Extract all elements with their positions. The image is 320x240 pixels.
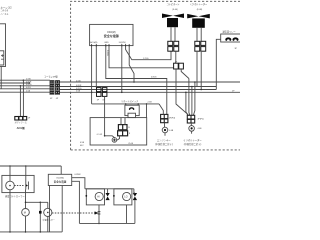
horn switch box SW1 [125,104,139,118]
U2 bottom wires [50,186,63,232]
horn H2 lead wires [197,28,201,47]
svg-text:ミリオルレーダー: ミリオルレーダー [183,138,202,142]
lower ground rail [0,231,62,233]
M06 connector row1 [118,125,127,130]
bus wire 2 (short) [0,82,30,84]
wire U1 pin7 to bus r1 [129,46,135,83]
U2 right wire2 to ground rail [72,181,80,223]
svg-text:(中国仕様ニ於テ): (中国仕様ニ於テ) [155,142,173,146]
svg-text:4P(PU): 4P(PU) [198,118,205,120]
bus row r2 right [60,86,217,88]
svg-text:1.25G: 1.25G [143,58,149,60]
cluster wire c2 [188,79,191,116]
M06 connector row2 [118,131,128,136]
svg-text:(F-08): (F-08) [197,9,203,11]
cluster wire c4 [193,81,195,115]
lower circuit: feeder rail [0,165,61,167]
indicator L2 lamp [189,123,195,134]
svg-text:2P: 2P [28,117,31,119]
connector S1 [174,63,184,69]
label 0.5W [97,134,102,136]
B2 caption [5,194,25,198]
svg-text:IG(24V): IG(24V) [119,42,126,44]
horn H2 label [190,2,208,11]
svg-text:M-2: M-2 [80,145,84,147]
M06 ground circle [112,138,117,143]
dashed link arrow [95,211,99,214]
B2 switch symbol [26,182,29,190]
wire drop to ACG connector (left) [20,85,22,116]
svg-text:0.5B: 0.5B [80,142,85,144]
horn HL2 bottom wire [126,205,128,224]
svg-text:0.85 B: 0.85 B [106,50,108,56]
svg-text:3P: 3P [235,48,238,50]
power unit box U2 [48,174,71,185]
svg-text:ス-06: ス-06 [128,141,134,145]
relay K1 contact glyphs [226,38,238,39]
svg-text:4P: 4P [50,98,53,100]
bus wire 1 [0,79,50,81]
svg-text:速度コントローラー: 速度コントローラー [5,194,25,198]
svg-text:ホーン 2/2: ホーン 2/2 [1,6,13,10]
wire from 1P connector down to M06 box [104,96,115,137]
svg-text:2.5B: 2.5B [76,91,81,93]
wires below B2 [10,190,26,232]
svg-text:HI: HI [97,196,100,199]
bus row r4 right [60,91,241,93]
connector 1P1P pair on bus [97,88,107,97]
gauge top rail [25,202,48,204]
relay K1 contact dots [225,39,238,41]
indicator L2 caption [183,138,202,146]
horn HL2 glyph [124,196,127,199]
wire drop to ACG connector (right) [23,79,25,116]
regulator box B1 (left, cut off) [0,24,6,67]
svg-text:0.85L: 0.85L [26,87,32,89]
svg-text:0.85R: 0.85R [26,81,32,83]
svg-text:0.85G: 0.85G [26,84,32,86]
svg-text:(F-06): (F-06) [172,9,178,11]
main connector pair right block [55,81,59,95]
horn switch feed wire [92,103,159,105]
indicator L2 connector [187,115,194,123]
speed controller box B2 [2,175,34,192]
indicator L2 lamp label [198,128,203,130]
indicator L1 caption [155,139,173,146]
horn H2 trumpet [187,14,210,28]
svg-text:ボディアース: ボディアース [15,121,27,125]
U2 title [54,178,67,184]
M06 internal wire [117,136,120,140]
bus wire 4 [0,88,50,90]
drop wires from feeder rail [10,166,61,182]
U2 right wire1 to horn loop [72,178,85,189]
wire U1 pin1 to horn switch line [91,46,93,104]
svg-text:ACG側: ACG側 [17,126,26,130]
horn H1 connector upper [168,41,179,45]
horn HL2 tone mark (bowtie) [133,193,137,200]
indicator L1 lamp [162,123,168,136]
cluster wire c1 [185,92,188,116]
svg-text:ハーネス: ハーネス [1,12,9,16]
U1 pin ticks [92,44,130,46]
svg-text:2.5B: 2.5B [148,102,153,104]
gauge G1 glyph [24,211,26,215]
faint page header text [1,6,13,17]
svg-text:0.85G: 0.85G [151,77,157,79]
svg-text:M: M [24,211,26,215]
label 0.85G on GND route [151,77,157,79]
bowtie1 stub [107,189,109,193]
svg-text:2.5W: 2.5W [26,79,31,81]
svg-text:B: B [128,127,130,129]
horn HL1 glyph [97,196,100,199]
svg-text:1P: 1P [97,100,100,102]
svg-text:4.0B: 4.0B [198,128,203,130]
M06 label [128,141,134,145]
power unit box U1 [90,24,133,45]
horn H1 connector lower [168,47,179,52]
dashed enclosure box [71,1,240,150]
wire 2.5B down to L1 [159,104,163,115]
relay note text [235,48,238,50]
svg-text:ACG(B): ACG(B) [90,41,97,44]
B2 dashed link [14,185,24,187]
bus row labels right of connector [76,80,235,92]
horn H2 connector lower [195,47,206,52]
svg-text:エンジンキー: エンジンキー [157,139,171,142]
svg-text:R: R [129,133,131,135]
wire relay to bus r3 [216,39,220,89]
svg-text:0.5W: 0.5W [76,80,81,82]
M06 row labels [128,127,131,135]
label S1 [175,61,178,63]
svg-text:0.85R: 0.85R [76,85,82,87]
relay K1 label [223,29,236,33]
svg-text:2.5B: 2.5B [26,91,31,93]
horn H1 trumpet [162,14,184,28]
indicator L2 connector label [198,118,205,120]
svg-text:ミクオルレーダー: ミクオルレーダー [190,2,208,6]
speed sensor G2 [44,202,52,232]
faint note text left of M06 [80,142,85,147]
label over main connector [44,75,58,79]
horn HL1 bottom wire [98,205,101,224]
svg-text:LO: LO [124,196,127,199]
M06 box [90,118,147,145]
wire from B1 down [0,67,2,89]
wire with terminal square [39,202,42,232]
label 1.25G [143,58,149,60]
svg-text:安全な電源: 安全な電源 [104,33,119,38]
U1 title text [104,31,119,38]
mechanical dashed link [52,212,95,214]
wire U1 pin GND2 to connector S1 [109,46,174,68]
M06 row connect wires [121,118,125,125]
bus row r3 right [60,89,217,91]
svg-text:0.85W: 0.85W [75,174,81,176]
wire S1 right exit diag [181,69,189,79]
horn H2 left wire to bus r2 [196,52,198,87]
horn HL1 bracket [85,189,104,205]
label 2.5B [148,102,153,104]
svg-text:4P: 4P [56,98,59,100]
B2 motor circle [6,181,15,190]
svg-text:(中国仕様ニ於テ): (中国仕様ニ於テ) [184,142,202,146]
G2 caption [43,218,55,222]
main connector pair left block [50,81,54,95]
labels 1P 1P [97,100,106,102]
indicator L1 lamp label [169,130,174,132]
bus wire labels left [26,79,32,93]
horn switch push contact glyph [129,108,134,110]
gauge G1 [22,209,30,232]
bus wire 3 [0,85,50,87]
bus row r1 right [60,81,241,83]
horn loop ground rail [79,222,134,224]
relay K1 box [221,34,241,42]
wire S1 down to indicator L2 [176,69,187,115]
horn H2 right wire to bus r3 [200,52,202,90]
svg-text:0.85G: 0.85G [76,88,82,90]
wire U1 IG pin to bus r4 [121,46,123,94]
svg-text:4.0B: 4.0B [169,130,174,132]
svg-text:安全な電源: 安全な電源 [54,179,67,183]
U1 pin labels [90,41,126,44]
svg-text:0.5 W: 0.5 W [97,134,102,136]
svg-text:リホーンスイッチ: リホーンスイッチ [121,99,138,103]
svg-text:中速センサー: 中速センサー [43,218,55,222]
label 0.85W [75,174,81,176]
wire U1 pin6 to horn1 feed (1.25G) [126,46,171,60]
bus wire 5 [0,91,50,93]
M06 right edge feed [146,104,148,118]
svg-text:コンビホーン: コンビホーン [166,2,179,6]
indicator L1 connector [161,114,168,122]
horn HL2 bracket [113,189,132,205]
svg-text:4P(PU): 4P(PU) [169,117,176,119]
horn switch label [121,99,138,103]
horn HL1 tone mark (bowtie) [106,193,110,200]
horn H1 right wire to connector S1 [175,51,177,63]
connector ACG 3-cell [15,117,27,121]
horn H1 lead wires [171,27,175,46]
wire U1 pin2 to 1P connector [95,46,97,88]
svg-text:GND: GND [104,42,109,44]
svg-text:通信認リレー: 通信認リレー [223,29,236,33]
bowtie2 stubs [134,189,135,224]
GND wire label 0.85B vertical [106,50,108,56]
labels 4P 4P under main connector [50,98,59,100]
horn HL2 circle [123,192,131,200]
horn HL1 circle [95,192,103,200]
label under ACG connector [15,117,31,130]
symbol inside B1 [1,54,4,59]
indicator L1 connector label [169,117,176,119]
svg-text:コーモン4P間: コーモン4P間 [44,75,58,79]
wire U1 GND pin route [106,46,167,115]
cluster wire c3 [191,86,193,116]
horn H1 label [166,2,179,11]
horn loop top rail [85,188,134,190]
horn H2 connector upper [195,41,206,45]
